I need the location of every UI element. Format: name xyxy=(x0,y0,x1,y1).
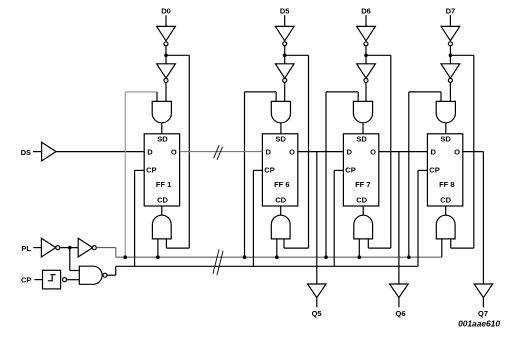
wire CD gate input2 of FF1 xyxy=(165,239,167,248)
wire D6 label to inverter xyxy=(365,15,367,26)
AND gate CD clear gate of FF6 xyxy=(271,215,290,239)
svg-text:CP: CP xyxy=(345,166,355,175)
wire SD gate output to FF6 xyxy=(280,123,282,134)
wire CD gate output to FF8 xyxy=(445,206,447,215)
wire FF8 O to Q7 buffer xyxy=(463,151,484,153)
wire NAND output to clock bus xyxy=(107,274,116,276)
inverter D6 input first stage xyxy=(357,26,376,40)
svg-text:SD: SD xyxy=(440,135,451,144)
wire CD gate output to FF1 xyxy=(161,206,163,215)
wire junction to second inverter xyxy=(365,55,367,64)
junction load bus / FF7 riser xyxy=(324,255,328,259)
node D0N junction xyxy=(164,54,168,58)
flip-flop FF7 box xyxy=(343,134,378,206)
wire load enable riser for FF6 xyxy=(244,92,246,257)
wire junction to second inverter xyxy=(449,55,451,64)
wire junction to second inverter xyxy=(284,55,286,64)
svg-text:D: D xyxy=(147,148,153,157)
svg-text:O: O xyxy=(454,148,460,157)
svg-text:CD: CD xyxy=(157,195,168,204)
wire Q7 buffer output stub xyxy=(482,298,484,308)
wire D5 buffered to SD gate xyxy=(284,82,286,101)
wire CD gate input1 to load bus xyxy=(358,239,360,257)
wire CD gate input1 to load bus xyxy=(157,239,159,257)
node D7N junction xyxy=(449,54,453,58)
break symbol on buses xyxy=(213,249,223,275)
junction load bus / CD gate FF7 xyxy=(358,255,362,259)
wire CP stub of FF8 xyxy=(418,169,427,171)
wire CD gate input2 of FF7 xyxy=(367,239,369,248)
inverter D0 input first stage xyxy=(157,26,176,40)
flip-flop FF8 box xyxy=(427,134,462,206)
svg-text:CP: CP xyxy=(264,166,274,175)
junction load bus / FF8 riser xyxy=(407,255,411,259)
wire FF6 O to FF7 D xyxy=(298,151,344,153)
break symbol on serial line xyxy=(214,145,223,160)
bus internal clock xyxy=(116,265,418,267)
bus load-enable (gray) xyxy=(116,256,442,258)
node D5N junction xyxy=(283,54,287,58)
wire CD gate input2 of FF6 xyxy=(283,239,285,248)
wire Q5 buffer output stub xyxy=(316,298,318,308)
wire FF1 O to FF6 D (with break) xyxy=(180,151,263,153)
wire D7 inverted to junction xyxy=(449,46,451,56)
svg-text:D: D xyxy=(265,148,271,157)
AND gate CD clear gate of FF8 xyxy=(436,215,455,239)
NAND gate clock gating xyxy=(79,266,102,284)
svg-text:CD: CD xyxy=(356,195,367,204)
inverter D5 second stage xyxy=(275,64,294,78)
wire D0 label to inverter xyxy=(165,15,167,26)
inverter D7 second stage xyxy=(441,64,460,78)
wire CD gate output to FF6 xyxy=(280,206,282,215)
wire junction to second inverter xyxy=(165,55,167,64)
svg-text:D5: D5 xyxy=(280,7,290,16)
svg-text:FF 7: FF 7 xyxy=(355,180,370,189)
AND gate CD clear gate of FF1 xyxy=(152,215,171,239)
wire CD gate input1 to load bus xyxy=(441,239,443,257)
wire CP stub of FF7 xyxy=(334,169,343,171)
svg-text:O: O xyxy=(370,148,376,157)
svg-text:SD: SD xyxy=(157,135,168,144)
wire D6 buffered to SD gate xyxy=(365,82,367,101)
svg-text:FF 8: FF 8 xyxy=(439,180,454,189)
inverter PL first stage xyxy=(41,238,55,257)
svg-text:PL: PL xyxy=(21,244,31,253)
AND gate CD clear gate of FF7 xyxy=(354,215,373,239)
wire Q6 buffer output stub xyxy=(398,298,400,308)
wire load enable riser for FF1 xyxy=(124,92,126,257)
inverter D6 second stage xyxy=(357,64,376,78)
wire D5N branch to CD gate of FF6 xyxy=(285,54,309,56)
wire PL label to inverter xyxy=(33,247,41,249)
AND gate SD set gate of FF1 xyxy=(152,101,171,122)
svg-text:D0: D0 xyxy=(161,7,171,16)
wire Q7 from serial line down xyxy=(482,152,484,284)
wire D7 label to inverter xyxy=(449,15,451,26)
junction load bus / FF6 riser xyxy=(243,255,247,259)
junction node PLinv xyxy=(68,246,72,250)
wire D0 inverted to junction xyxy=(165,46,167,56)
svg-text:SD: SD xyxy=(356,135,367,144)
svg-text:D7: D7 xyxy=(446,7,456,16)
schmitt hysteresis symbol xyxy=(48,275,56,281)
wire CD gate input2 of FF8 xyxy=(450,239,452,248)
wire D0 buffered to SD gate xyxy=(165,82,167,101)
node D6N junction xyxy=(364,54,368,58)
wire load enable riser for FF7 xyxy=(325,92,327,257)
wire CP label to schmitt trigger xyxy=(34,279,42,281)
svg-text:CD: CD xyxy=(275,195,286,204)
junction load bus / FF1 riser xyxy=(123,255,127,259)
wire CD gate output to FF7 xyxy=(362,206,364,215)
wire D7N branch to CD gate of FF8 xyxy=(450,54,473,56)
svg-text:CD: CD xyxy=(440,195,451,204)
flip-flop FF1 box xyxy=(144,134,179,206)
wire FF7 O to FF8 D xyxy=(379,151,428,153)
svg-text:FF 6: FF 6 xyxy=(274,180,289,189)
buffer DS (input buffer) xyxy=(42,142,56,161)
svg-text:FF 1: FF 1 xyxy=(156,180,171,189)
svg-text:Q7: Q7 xyxy=(478,309,488,318)
svg-text:D: D xyxy=(430,148,436,157)
svg-text:O: O xyxy=(289,148,295,157)
wire SD gate output to FF8 xyxy=(445,123,447,134)
wire D7 buffered to SD gate xyxy=(449,82,451,101)
svg-text:CP: CP xyxy=(429,166,439,175)
inverter PL second stage xyxy=(78,238,92,257)
svg-text:Q6: Q6 xyxy=(395,309,405,318)
wire PL double-inverted to load bus xyxy=(96,247,116,249)
wire D6N branch to CD gate of FF7 xyxy=(366,54,391,56)
AND gate SD set gate of FF8 xyxy=(436,101,455,122)
wire load enable riser for FF8 xyxy=(408,92,410,257)
wire SD gate output to FF1 xyxy=(161,123,163,134)
wire PL inverter to second inverter xyxy=(60,247,78,249)
buffer Q5 output xyxy=(308,284,327,298)
schmitt trigger CP input stage xyxy=(43,270,61,289)
inverter D5 input first stage xyxy=(275,26,294,40)
wire Q5 from serial line down xyxy=(316,152,318,284)
flip-flop FF6 box xyxy=(262,134,297,206)
svg-text:D: D xyxy=(346,148,352,157)
wire CP stub of FF1 xyxy=(135,169,145,171)
wire schmitt output to NAND input xyxy=(67,279,80,281)
wire CD gate input1 to load bus xyxy=(276,239,278,257)
wire D5 inverted to junction xyxy=(284,46,286,56)
wire Q6 from serial line down xyxy=(398,152,400,284)
wire D0N branch to CD gate of FF1 xyxy=(166,54,189,56)
AND gate SD set gate of FF6 xyxy=(271,101,290,122)
svg-text:DS: DS xyxy=(21,148,31,157)
wire D5 label to inverter xyxy=(284,15,286,26)
wire SD gate output to FF7 xyxy=(362,123,364,134)
svg-text:001aae610: 001aae610 xyxy=(458,318,500,328)
svg-text:O: O xyxy=(171,148,177,157)
wire D6 inverted to junction xyxy=(365,46,367,56)
junction load bus / CD gate FF1 xyxy=(156,255,160,259)
buffer Q7 output xyxy=(474,284,493,298)
wire PLinv node down to NAND input xyxy=(69,248,71,271)
svg-text:CP: CP xyxy=(146,166,156,175)
svg-text:SD: SD xyxy=(275,135,286,144)
svg-text:D6: D6 xyxy=(361,7,371,16)
svg-text:CP: CP xyxy=(21,276,31,285)
svg-text:Q5: Q5 xyxy=(312,309,322,318)
inverter D0 second stage xyxy=(157,64,176,78)
buffer Q6 output xyxy=(390,284,409,298)
wire CP stub of FF6 xyxy=(253,169,262,171)
inverter D7 input first stage xyxy=(441,26,460,40)
AND gate SD set gate of FF7 xyxy=(353,101,372,122)
wire DS buffer output to FF1 D xyxy=(56,151,144,153)
wire DS label to buffer xyxy=(33,151,42,153)
junction load bus / CD gate FF6 xyxy=(275,255,279,259)
